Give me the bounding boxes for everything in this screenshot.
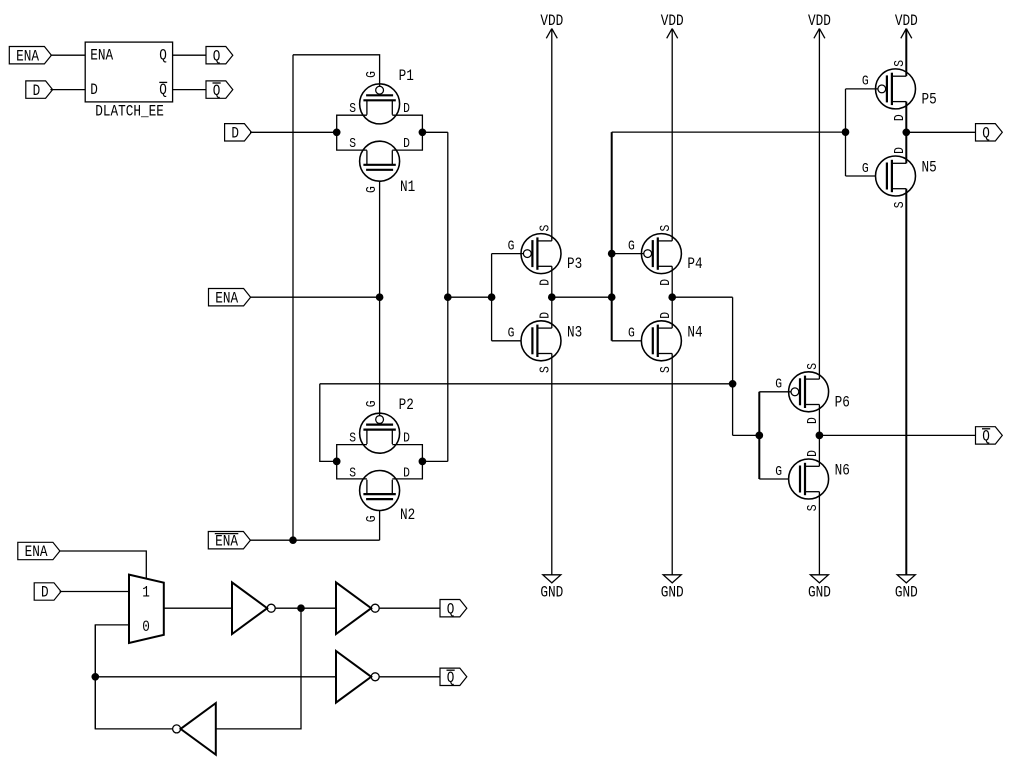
svg-text:GND: GND bbox=[895, 583, 918, 601]
wire ENA to mux select bbox=[60, 551, 147, 579]
power VDD symbol and rail 4 bbox=[901, 29, 907, 39]
svg-text:Q: Q bbox=[447, 600, 455, 618]
svg-text:0: 0 bbox=[142, 618, 150, 636]
input tag ENA (main) bbox=[209, 289, 251, 306]
svg-text:N2: N2 bbox=[400, 506, 415, 524]
wire TG1 P1 source bend bbox=[337, 115, 367, 132]
input tag D (main) bbox=[225, 124, 252, 141]
transistor P5 (PMOS) bbox=[876, 69, 916, 109]
wire P5 gate bbox=[846, 88, 879, 90]
svg-text:ENA: ENA bbox=[16, 47, 40, 65]
node inv4 output bbox=[816, 432, 823, 439]
wire P6 gate bbox=[759, 391, 791, 393]
svg-text:G: G bbox=[508, 327, 515, 342]
wire N2 gate down bbox=[379, 511, 381, 541]
svg-text:G: G bbox=[365, 186, 380, 193]
node inv4 input bbox=[756, 432, 763, 439]
wire feedback left down bbox=[320, 384, 337, 462]
svg-text:DLATCH_EE: DLATCH_EE bbox=[95, 103, 164, 121]
svg-text:G: G bbox=[862, 162, 869, 177]
wire P3 gate bbox=[492, 253, 524, 255]
wire bracket2 top to inv3 bbox=[612, 131, 846, 133]
wire inv U6 out bbox=[95, 625, 172, 729]
power VDD symbol and rail 3 bbox=[814, 29, 820, 39]
output tag Q (block) bbox=[206, 47, 233, 64]
svg-text:Q: Q bbox=[447, 669, 455, 687]
svg-text:G: G bbox=[508, 239, 515, 254]
wire inv2 gate bracket bbox=[611, 132, 613, 341]
transistor P1 (PMOS) bbox=[360, 84, 400, 124]
node inv3 input bbox=[842, 129, 849, 136]
inverter U6 triangle (left) bbox=[181, 703, 216, 755]
svg-text:Q: Q bbox=[982, 125, 990, 143]
svg-text:G: G bbox=[628, 239, 635, 254]
wire N6 gate bbox=[759, 478, 788, 480]
svg-text:D: D bbox=[231, 125, 239, 143]
node inv1 output bbox=[548, 294, 555, 301]
transistor N6 (NMOS) bbox=[789, 459, 829, 499]
svg-text:N6: N6 bbox=[835, 462, 850, 480]
wire inv1 gate bracket bbox=[491, 254, 493, 341]
svg-text:ENA: ENA bbox=[25, 543, 49, 561]
svg-text:VDD: VDD bbox=[808, 12, 831, 30]
node inv U3 out bbox=[298, 605, 305, 612]
transistor N3 (NMOS) bbox=[521, 321, 561, 361]
wire TG2 N2 drain bend bbox=[392, 461, 422, 479]
output tag Qbar (logic) bbox=[440, 668, 467, 685]
svg-text:Q: Q bbox=[159, 46, 167, 64]
wire P5-N5 drains bbox=[905, 102, 907, 164]
transistor N4 (NMOS) bbox=[641, 321, 681, 361]
wire inv2 out right bbox=[672, 296, 732, 298]
input tag D (block) bbox=[26, 81, 53, 98]
inverter U4 triangle bbox=[336, 582, 371, 634]
svg-text:G: G bbox=[365, 400, 380, 407]
node TG1 input bbox=[333, 129, 340, 136]
svg-text:G: G bbox=[628, 327, 635, 342]
svg-text:ENA: ENA bbox=[215, 532, 239, 550]
wire P2 gate from ENA node bbox=[379, 297, 381, 416]
node TG2 right bbox=[419, 458, 426, 465]
wire Qbar row bbox=[95, 676, 336, 678]
wire P4-N4 drains bbox=[671, 266, 673, 328]
transistor P4 (PMOS) bbox=[641, 234, 681, 274]
ground GND symbol and rail 2 bbox=[671, 354, 673, 575]
svg-text:D: D bbox=[90, 81, 98, 99]
node ENA gate junction bbox=[376, 294, 383, 301]
wire inv U5 out to Qbar bbox=[379, 676, 440, 678]
wire D to mux bbox=[60, 591, 129, 593]
node inv3 output bbox=[903, 129, 910, 136]
transistor N5 (NMOS) bbox=[876, 156, 916, 196]
input tag ENA (logic) bbox=[18, 542, 60, 559]
wire N1 gate to ENA node bbox=[379, 181, 381, 297]
wire mux out to inv bbox=[164, 607, 232, 609]
node inv2 input wire tee bbox=[608, 294, 615, 301]
wire P3-N3 drains bbox=[551, 266, 553, 328]
ground GND symbol and rail 4 bbox=[905, 189, 907, 575]
wire inv2 out vertical bbox=[732, 297, 734, 435]
input tag D (logic) bbox=[34, 583, 61, 600]
wire P6-N6 drains bbox=[818, 405, 820, 467]
wire inv U4 out to Q bbox=[379, 607, 440, 609]
ground GND symbol and rail 3 bbox=[818, 492, 820, 575]
wire TG2 P2 drain bend bbox=[392, 445, 422, 462]
wire inv3 gate bracket bbox=[845, 89, 847, 176]
wire TG1 N1 drain bend bbox=[392, 132, 422, 150]
wire D tag to block bbox=[50, 89, 85, 91]
transistor N2 (NMOS) bbox=[360, 471, 400, 511]
wire mux 0-input bbox=[95, 625, 129, 729]
svg-text:Q: Q bbox=[982, 428, 990, 446]
mux U2 body bbox=[129, 575, 164, 643]
svg-text:P2: P2 bbox=[399, 396, 414, 414]
svg-text:D: D bbox=[33, 82, 41, 100]
inverter U3 triangle bbox=[232, 582, 267, 634]
svg-text:GND: GND bbox=[661, 583, 684, 601]
output tag Qbar (block) bbox=[206, 81, 233, 98]
wire ENAbar left vertical bbox=[292, 55, 294, 540]
svg-text:ENA: ENA bbox=[215, 289, 239, 307]
output tag Q (main) bbox=[976, 124, 1003, 141]
wire TG2 right to vertical bbox=[422, 460, 447, 462]
node ENAbar junction bbox=[290, 537, 297, 544]
wire TG2 P2 source bend bbox=[337, 445, 367, 462]
wire ENA tag to block bbox=[50, 54, 85, 56]
wire inv4 gate bracket bbox=[758, 392, 760, 479]
svg-text:VDD: VDD bbox=[540, 12, 563, 30]
svg-text:GND: GND bbox=[808, 583, 831, 601]
wire N3 gate bbox=[492, 340, 521, 342]
node TG1 output bbox=[419, 129, 426, 136]
wire TG2 N2 source bend bbox=[337, 461, 367, 479]
svg-text:VDD: VDD bbox=[895, 12, 918, 30]
wire N5 gate bbox=[846, 175, 876, 177]
svg-text:Q: Q bbox=[213, 82, 221, 100]
node inv2 input gate tee bbox=[608, 250, 615, 257]
wire P1 gate top bbox=[293, 55, 380, 87]
node feedback tee bbox=[729, 380, 736, 387]
transistor P6 (PMOS) bbox=[789, 372, 829, 412]
output tag Q (logic) bbox=[440, 600, 467, 617]
wire D tag to TG1 bbox=[250, 131, 337, 133]
ground GND symbol and rail 1 bbox=[551, 354, 553, 575]
svg-text:N4: N4 bbox=[687, 323, 702, 341]
input tag ENA (block) bbox=[9, 47, 51, 64]
wire TG1out to inv1 input bbox=[448, 296, 492, 298]
wire ENAbar tag to N2 gate bbox=[250, 539, 380, 541]
wire Qbar output bbox=[819, 434, 975, 436]
node inv2 output bbox=[669, 294, 676, 301]
svg-text:N3: N3 bbox=[567, 323, 582, 341]
power VDD symbol and rail 1 bbox=[546, 29, 552, 39]
svg-text:G: G bbox=[775, 465, 782, 480]
wire TG1 out to vertical bbox=[422, 131, 447, 133]
wire TG1 N1 source bend bbox=[337, 132, 367, 150]
wire ENA tag to gate node bbox=[250, 296, 379, 298]
svg-text:G: G bbox=[365, 71, 380, 78]
svg-text:G: G bbox=[775, 378, 782, 393]
svg-text:Q: Q bbox=[159, 81, 167, 99]
svg-text:N1: N1 bbox=[400, 178, 415, 196]
output tag Qbar (main) bbox=[976, 427, 1003, 444]
svg-text:N5: N5 bbox=[922, 159, 937, 177]
node TG1out branch bbox=[444, 294, 451, 301]
transistor N1 (NMOS) bbox=[360, 141, 400, 181]
wire block to Qbar tag bbox=[173, 89, 206, 91]
wire Q output bbox=[906, 131, 975, 133]
node logic feedback bbox=[92, 673, 99, 680]
transistor P2 (PMOS) bbox=[360, 413, 400, 453]
wire block to Q tag bbox=[173, 54, 206, 56]
wire to inv4 input bbox=[733, 434, 760, 436]
svg-text:VDD: VDD bbox=[661, 12, 684, 30]
svg-text:GND: GND bbox=[540, 583, 563, 601]
wire TG1 P1 drain bend bbox=[392, 115, 422, 132]
input tag ENAbar (main) bbox=[208, 532, 250, 549]
wire N4 gate bbox=[612, 340, 642, 342]
svg-text:D: D bbox=[41, 584, 49, 602]
wire P4 gate bbox=[612, 253, 644, 255]
svg-text:P6: P6 bbox=[835, 393, 850, 411]
power VDD symbol and rail 2 bbox=[667, 29, 673, 39]
wire fb vertical from node bbox=[216, 608, 301, 729]
svg-text:ENA: ENA bbox=[90, 46, 114, 64]
svg-text:G: G bbox=[365, 516, 380, 523]
node TG2 left bbox=[333, 458, 340, 465]
svg-text:P1: P1 bbox=[399, 67, 414, 85]
svg-text:P3: P3 bbox=[567, 255, 582, 273]
DLATCH_EE symbol body U1 bbox=[85, 42, 172, 102]
svg-text:P5: P5 bbox=[922, 90, 937, 108]
svg-text:Q: Q bbox=[213, 47, 221, 65]
svg-text:1: 1 bbox=[142, 584, 150, 602]
node inv1 input bbox=[488, 294, 495, 301]
wire inv U3 out bbox=[275, 607, 336, 609]
svg-text:G: G bbox=[862, 75, 869, 90]
wire feedback horizontal bbox=[320, 383, 733, 385]
wire TG1 out vertical down bbox=[447, 132, 449, 461]
inverter U5 triangle bbox=[336, 651, 371, 703]
wire inv1 out to inv2 in bbox=[552, 296, 612, 298]
svg-text:P4: P4 bbox=[687, 255, 702, 273]
transistor P3 (PMOS) bbox=[521, 234, 561, 274]
